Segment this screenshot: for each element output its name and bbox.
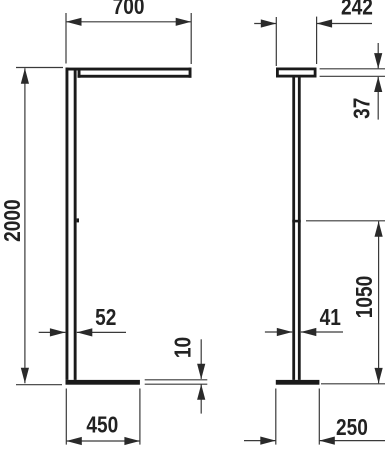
- svg-text:41: 41: [320, 305, 341, 330]
- dim 52: right tail: [77, 331, 126, 333]
- side view: stem joint bar: [292, 220, 300, 223]
- dim 250: right extension line: [318, 389, 320, 445]
- dim 37: top extension line: [320, 68, 385, 70]
- dim 1050: top extension line: [306, 220, 385, 222]
- svg-text:10: 10: [171, 337, 196, 358]
- side view: base plate: [276, 380, 320, 385]
- dim 37: bottom extension line: [320, 75, 385, 77]
- dim 242: left arrow: [261, 19, 277, 27]
- dim 450: right arrow: [124, 437, 140, 445]
- dim 242: right tail: [317, 23, 372, 25]
- dim 41: left arrow: [277, 328, 293, 336]
- dim 41: right arrow: [301, 328, 317, 336]
- dim 1050: bottom arrow: [375, 368, 383, 384]
- dim 10: upper arrow: [197, 364, 205, 380]
- dim 250: left arrow: [260, 437, 276, 445]
- dim 242: right extension line: [316, 17, 318, 64]
- dim 2000: top arrow: [21, 68, 29, 84]
- front view: head bottom bar: [78, 75, 192, 78]
- dim 52: right arrow: [77, 328, 93, 336]
- dim 250: right arrow: [319, 437, 335, 445]
- dim 700: dimension line: [66, 21, 191, 23]
- side view: head top bar: [276, 68, 317, 71]
- dim 242: left extension line: [275, 17, 277, 66]
- side view: head left cap: [276, 68, 279, 78]
- dim 41: left tail: [265, 331, 292, 333]
- front view: head top bar: [66, 68, 192, 71]
- front view: base plate: [66, 380, 140, 385]
- front view: head left cap: [78, 71, 81, 78]
- dim 450: dimension line: [66, 440, 140, 442]
- front view: pole joint nub: [77, 218, 79, 222]
- dim 1050: top arrow: [375, 221, 383, 237]
- side view: stem right wall: [298, 78, 301, 380]
- dim 37: lower arrow: [374, 77, 382, 93]
- dim 10: lower dimension line: [200, 385, 202, 414]
- svg-text:450: 450: [86, 413, 118, 438]
- dim 250: right tail: [319, 440, 385, 442]
- dim 700: left arrow: [66, 18, 82, 26]
- svg-text:1050: 1050: [352, 276, 377, 318]
- svg-text:52: 52: [95, 305, 116, 330]
- svg-text:242: 242: [341, 0, 373, 20]
- side view: stem left wall: [292, 78, 295, 380]
- dim 37: upper dimension line: [377, 43, 379, 68]
- front view: head right cap: [189, 68, 192, 78]
- dim 37: lower dimension line: [377, 77, 379, 120]
- dim 2000: top extension line: [16, 67, 63, 69]
- dim 10: upper dimension line: [200, 339, 202, 379]
- front view: pole right wall: [74, 71, 77, 380]
- dim 10: bottom extension line: [145, 383, 208, 385]
- dim 450: left extension line: [65, 389, 67, 445]
- dim 2000: bottom extension line: [16, 384, 62, 386]
- front view: pole left wall: [66, 68, 69, 380]
- dim 242: right arrow: [317, 19, 333, 27]
- dim 450: right extension line: [139, 389, 141, 445]
- dim 37: upper arrow: [374, 53, 382, 69]
- dim 700: right arrow: [176, 18, 192, 26]
- svg-text:700: 700: [113, 0, 145, 19]
- dim 242: left tail: [254, 23, 276, 25]
- side view: head bottom bar: [276, 75, 317, 78]
- svg-text:2000: 2000: [0, 199, 25, 241]
- dim 450: left arrow: [66, 437, 82, 445]
- dim 52: left tail: [39, 331, 66, 333]
- dim 10: lower arrow: [197, 384, 205, 400]
- dim 52: left arrow: [50, 328, 66, 336]
- dim 250: left tail: [244, 440, 276, 442]
- dim 700: left extension line: [65, 13, 67, 64]
- dim 10: top extension line: [145, 379, 208, 381]
- side view: head right cap: [314, 68, 317, 78]
- svg-text:250: 250: [336, 415, 368, 440]
- dim 700: right extension line: [190, 13, 192, 64]
- dim 1050: dimension line: [378, 221, 380, 383]
- dim 1050: bottom extension line: [321, 383, 385, 385]
- dim 250: left extension line: [275, 389, 277, 445]
- dim 41: right tail: [301, 331, 343, 333]
- svg-text:37: 37: [350, 98, 375, 119]
- dim 2000: bottom arrow: [21, 368, 29, 384]
- dim 2000: dimension line: [24, 68, 26, 383]
